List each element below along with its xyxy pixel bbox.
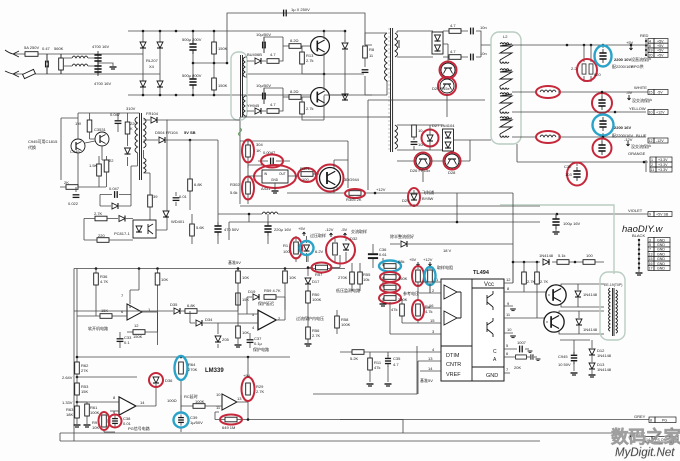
wire +3.3V rail (517, 144, 648, 162)
ellipse red 304 (242, 140, 254, 163)
svg-text:R302: R302 (230, 182, 240, 187)
svg-text:C945: C945 (70, 149, 80, 154)
svg-text:100: 100 (586, 253, 593, 258)
resistor 649 1M circled (215, 419, 248, 421)
svg-text:C945: C945 (558, 354, 568, 359)
svg-text:2.7K: 2.7K (256, 389, 265, 394)
svg-text:L2: L2 (503, 34, 508, 39)
svg-text:10n: 10n (480, 25, 487, 30)
svg-text:10: 10 (507, 327, 512, 332)
wire rect out 12V (454, 140, 492, 161)
ground ladder (380, 304, 387, 306)
svg-text:3: 3 (649, 238, 651, 242)
inductor 5VSB coil (262, 212, 278, 214)
ground BLACK (638, 268, 640, 272)
resistor R64 270K circled cyan (180, 357, 182, 410)
resistor 270K lv (352, 263, 360, 291)
drive transformer T4 (600, 272, 625, 340)
svg-text:D26 FR15x: D26 FR15x (410, 168, 430, 173)
svg-text:+3.3V: +3.3V (658, 168, 668, 172)
svg-text:R8: R8 (369, 47, 375, 52)
optocoupler PC817 (133, 220, 156, 238)
svg-text:103: 103 (565, 172, 572, 177)
T3 primary (135, 117, 138, 153)
svg-text:9: 9 (649, 213, 651, 217)
SCR D25 circled (441, 63, 455, 77)
transistor C3531 (95, 132, 109, 146)
svg-text:数码之家: 数码之家 (611, 427, 680, 447)
capacitor 10n sec1 (471, 28, 474, 35)
capacitor C39 circled cyan (180, 406, 182, 432)
diode FR104 (144, 119, 241, 121)
T1 core (391, 28, 393, 152)
transistor drive Q4 (544, 312, 564, 332)
svg-text:4.7: 4.7 (270, 52, 276, 57)
IC TL494 box (441, 279, 504, 381)
node dots mid buses (248, 192, 559, 224)
sample network D32 circled (335, 236, 346, 263)
diode D26 circled (416, 154, 430, 168)
capacitor 220u 16V (264, 222, 271, 236)
svg-text:10k: 10k (363, 277, 369, 282)
L2 winding 3 (500, 93, 512, 114)
wire HV+ ext (324, 31, 345, 95)
T3 secondary (144, 118, 147, 148)
capacitor 0.047 sb (115, 121, 122, 124)
svg-text:PC817-1: PC817-1 (114, 231, 131, 236)
wire half-bridge mid (246, 73, 364, 75)
capacitor 0.01 wd (173, 198, 180, 201)
rectifier box 5V (432, 32, 443, 54)
T1 secondary top (395, 33, 398, 57)
svg-text:10K: 10K (161, 277, 168, 282)
svg-text:+12V: +12V (423, 257, 433, 262)
ellipse red A431 (254, 165, 296, 188)
wire lower bus (229, 222, 540, 240)
svg-text:+5V: +5V (298, 226, 306, 231)
svg-text:-5V: -5V (341, 227, 348, 232)
capacitor pin5 (520, 346, 523, 353)
svg-text:2.7K: 2.7K (312, 333, 321, 338)
capacitor C36 (368, 254, 378, 258)
svg-text:GND: GND (657, 262, 665, 266)
resistor R100 circled (295, 236, 297, 262)
svg-text:D19: D19 (248, 289, 256, 294)
SCR fb (112, 203, 118, 209)
capacitor R8 snub (362, 70, 369, 73)
wire teal link (500, 205, 614, 274)
wire T2 to snubbers (245, 57, 247, 116)
svg-text:GND: GND (657, 238, 665, 242)
diode D504 (144, 139, 219, 141)
svg-text:15K: 15K (101, 308, 108, 313)
resistor R56 2.7K (306, 327, 311, 339)
zener Z05 (217, 323, 219, 348)
snubber cap 10u/50V Q2 (263, 88, 266, 104)
svg-text:GND: GND (657, 267, 665, 271)
svg-text:2.7k: 2.7k (306, 106, 314, 111)
svg-text:RL207: RL207 (146, 58, 159, 63)
transistor Q1 (311, 37, 330, 56)
resistor 5.1k drv (557, 260, 569, 265)
svg-text:17: 17 (649, 267, 653, 271)
svg-text:6.2V: 6.2V (315, 249, 324, 254)
zener 6.2V circled cyan (306, 236, 308, 262)
resistor R29 2.7K circled (236, 357, 248, 420)
resistor 6.8K ps (185, 309, 197, 314)
fuse F1 5A 250V (25, 52, 38, 57)
svg-text:YH945: YH945 (247, 103, 260, 108)
wire standby top rail (61, 113, 140, 180)
resistor R5x circled (308, 255, 340, 268)
capacitor 100u 16V (555, 214, 557, 231)
resistor ladder r1 cyan (383, 258, 396, 302)
svg-text:2200 16V: 2200 16V (614, 125, 631, 130)
svg-text:FR104: FR104 (146, 111, 159, 116)
svg-text:1K: 1K (256, 148, 261, 153)
svg-text:0.01: 0.01 (179, 194, 188, 199)
svg-text:8: 8 (650, 419, 652, 423)
svg-text:+5V: +5V (657, 39, 664, 43)
svg-text:500μ 200V: 500μ 200V (182, 37, 202, 42)
T3 aux (144, 158, 147, 173)
svg-text:EE-19(T0P): EE-19(T0P) (604, 283, 622, 287)
T3 aux return (131, 150, 150, 192)
resistor R59 4.7K (264, 295, 276, 300)
resistor R61 100K (77, 402, 87, 424)
svg-text:过压取样: 过压取样 (310, 232, 326, 238)
svg-text:150K: 150K (218, 46, 228, 51)
resistor 150K (127, 312, 158, 332)
TL494 pins left (390, 282, 441, 371)
wire AC line L (13, 53, 143, 55)
svg-text:4.7K: 4.7K (100, 279, 109, 284)
svg-text:5.6k: 5.6k (230, 190, 238, 195)
resistor R302 circled (247, 183, 249, 204)
svg-text:3DG944: 3DG944 (344, 177, 360, 182)
resistor 39 (148, 195, 153, 207)
svg-text:GND: GND (657, 243, 665, 247)
svg-text:VIOLET: VIOLET (628, 208, 643, 213)
svg-text:4.7: 4.7 (450, 23, 456, 28)
svg-text:PG: PG (662, 419, 667, 423)
wire +12V rail (512, 111, 646, 113)
resistor 220 start (97, 238, 109, 243)
svg-text:没交流保护: 没交流保护 (632, 97, 652, 103)
svg-text:500μ 200V: 500μ 200V (182, 73, 202, 78)
AC plug arrows (5, 50, 19, 77)
svg-text:0.47: 0.47 (42, 46, 51, 51)
T1 secondary bottom (395, 125, 398, 149)
svg-text:R57: R57 (315, 272, 323, 277)
TL494 pins right (504, 283, 548, 373)
svg-text:X4: X4 (149, 64, 155, 69)
resistor 15K (77, 315, 127, 317)
resistor 2.7k Q2 (300, 102, 305, 114)
svg-text:+3.3V: +3.3V (658, 158, 668, 162)
svg-text:4700 16V: 4700 16V (92, 44, 109, 49)
wire HV+ bus (128, 30, 324, 32)
svg-text:10μ/50V: 10μ/50V (256, 32, 271, 37)
capacitor 0.022 (73, 195, 80, 198)
resistor R53 15K (76, 374, 78, 383)
svg-text:+12V: +12V (656, 111, 665, 115)
svg-text:68k: 68k (398, 259, 404, 264)
coil -5V circled (540, 90, 556, 92)
svg-text:飞利浦: 飞利浦 (422, 189, 434, 195)
svg-text:GND: GND (657, 252, 665, 256)
svg-text:C945可用C1815: C945可用C1815 (28, 139, 58, 144)
svg-text:BY8W: BY8W (422, 196, 434, 201)
resistor 4.7 sec2 (443, 56, 468, 58)
svg-text:K: K (130, 126, 133, 131)
transistor 3.3V reg (320, 168, 341, 189)
svg-text:100K: 100K (312, 297, 322, 302)
wire top snubber 1u line (227, 13, 365, 63)
svg-text:10: 10 (216, 392, 221, 397)
svg-text:D17: D17 (312, 279, 320, 284)
resistor 10 (412, 125, 417, 137)
secondary enclosure upper edge (368, 100, 485, 190)
svg-text:2: 2 (651, 163, 653, 167)
resistor 100K rc (181, 395, 222, 406)
svg-text:GND: GND (657, 248, 665, 252)
svg-text:Z05: Z05 (222, 337, 230, 342)
svg-text:100K: 100K (90, 410, 100, 415)
svg-text:0.047: 0.047 (110, 112, 121, 117)
svg-text:0.022: 0.022 (68, 201, 79, 206)
resistor 4.7 Q1 (267, 59, 279, 64)
wire sec top (397, 31, 433, 57)
resistor R50 100K (307, 285, 309, 327)
resistor 220K sb (125, 122, 130, 134)
diode D13 (591, 356, 593, 362)
svg-text:39: 39 (153, 194, 158, 199)
wire 5VSB bus to VIOLET (218, 117, 648, 222)
svg-text:100Ω: 100Ω (167, 398, 177, 403)
svg-text:基准5V: 基准5V (420, 377, 433, 383)
svg-text:1: 1 (651, 158, 653, 162)
svg-text:100: 100 (302, 177, 309, 182)
resistor ladder r2 circled (384, 275, 396, 280)
resistor 4.7 Q2 (267, 109, 279, 114)
svg-text:5A 250V: 5A 250V (24, 45, 39, 50)
capacitor C5 500u200V (192, 31, 194, 95)
svg-text:4.7: 4.7 (450, 49, 456, 54)
resistor ladder r3 circled (384, 285, 396, 290)
svg-text:+9V: +9V (243, 373, 251, 378)
capacitor 4700 16V top (94, 51, 101, 65)
resistor R13 2.7k (300, 52, 305, 64)
svg-text:8.2Ω: 8.2Ω (290, 89, 299, 94)
svg-text:Vcc: Vcc (484, 282, 494, 288)
capacitor 0.0047 circled (271, 158, 274, 165)
resistor 15K m2 (236, 293, 241, 305)
svg-text:15: 15 (649, 91, 653, 95)
svg-text:20: 20 (649, 53, 653, 57)
svg-text:4.7k: 4.7k (425, 309, 433, 314)
svg-text:D35: D35 (170, 302, 178, 307)
svg-text:TL494: TL494 (473, 270, 490, 276)
svg-text:560K: 560K (54, 46, 64, 51)
svg-text:R59 4.7K: R59 4.7K (264, 288, 281, 293)
svg-text:2.64V: 2.64V (62, 375, 73, 380)
transistor Q2 (311, 88, 330, 107)
svg-text:1N4148: 1N4148 (583, 327, 598, 332)
resistor 1W (87, 120, 92, 132)
svg-text:R1: R1 (283, 243, 289, 248)
resistor R63 18K (76, 395, 78, 424)
resistor 2.7K d1 (523, 262, 525, 292)
svg-text:CNTR: CNTR (446, 362, 461, 368)
svg-text:19: 19 (649, 49, 653, 53)
svg-text:5V SB: 5V SB (184, 130, 196, 135)
svg-text:4700 16V: 4700 16V (94, 81, 111, 86)
svg-text:10 50V: 10 50V (558, 362, 571, 367)
TL494 out transistor 1 (487, 291, 493, 310)
L2 winding 1 (500, 43, 512, 64)
diode YH945 Q2 (247, 110, 266, 112)
svg-text:LM339: LM339 (205, 368, 224, 374)
capacitor 1u X 250V (284, 10, 287, 17)
svg-text:4: 4 (649, 39, 651, 43)
wire sec mid (397, 125, 443, 150)
standby transformer T3 core (140, 113, 142, 180)
svg-text:+5V: +5V (626, 40, 634, 45)
svg-text:VREF: VREF (446, 372, 461, 378)
svg-text:20K: 20K (514, 365, 521, 370)
svg-text:交流取样: 交流取样 (351, 228, 367, 234)
svg-text:过流保护内电压: 过流保护内电压 (296, 315, 324, 321)
svg-text:6.8K: 6.8K (194, 182, 203, 187)
net -12V arrow (627, 141, 630, 146)
svg-text:0.047: 0.047 (109, 186, 120, 191)
svg-text:12: 12 (134, 323, 139, 328)
svg-text:22: 22 (109, 158, 114, 163)
svg-text:2.7k: 2.7k (306, 58, 314, 63)
svg-text:310V: 310V (126, 106, 136, 111)
svg-text:D32: D32 (350, 236, 358, 241)
varistor (23, 69, 36, 78)
resistor 150K top (193, 31, 227, 95)
svg-text:低压监测电路: 低压监测电路 (336, 287, 360, 293)
svg-text:18 V: 18 V (443, 248, 452, 253)
svg-text:15: 15 (649, 257, 653, 261)
resistor 10K m1 (237, 269, 239, 294)
svg-text:WD401: WD401 (171, 219, 185, 224)
svg-text:13: 13 (237, 396, 242, 401)
ground A431 (274, 183, 276, 190)
wire HV- bus (128, 94, 364, 96)
TL494 comparator 1 (444, 285, 457, 299)
net -5V arrow (628, 95, 631, 100)
T2 winding top (243, 57, 245, 77)
capacitor C6 500u200V (189, 75, 196, 89)
resistor 10K m4 (284, 269, 286, 311)
svg-text:MyDigit.Net: MyDigit.Net (615, 447, 675, 459)
ground EMI (98, 63, 113, 66)
wire T1 primary conns (365, 33, 387, 95)
node dots HV (142, 30, 229, 97)
wire secondary gnd bus (240, 205, 540, 207)
diode D17 (307, 268, 309, 277)
svg-text:GND: GND (486, 373, 498, 379)
snubber cap 10u/50V Q1 (263, 37, 266, 53)
T4 winding right (616, 290, 618, 333)
bridge RL207 X4 (143, 31, 160, 95)
svg-text:保护延迟: 保护延迟 (258, 300, 274, 306)
svg-text:16: 16 (429, 303, 434, 308)
svg-text:+5V: +5V (657, 44, 664, 48)
wire drive row (513, 262, 604, 283)
green squiggle (239, 128, 242, 136)
resistor 150K bottom (212, 78, 217, 90)
ellipse red 0.0047 (261, 155, 283, 168)
ground R63 (74, 425, 81, 427)
L2 winding 2 (500, 69, 512, 90)
opamp LM339d (222, 394, 237, 410)
svg-text:1N4148: 1N4148 (597, 353, 612, 358)
svg-text:2.7K: 2.7K (540, 279, 549, 284)
svg-text:-12V: -12V (656, 139, 664, 143)
svg-text:15: 15 (430, 318, 435, 323)
svg-text:2200 10V: 2200 10V (614, 57, 631, 62)
svg-text:15K: 15K (81, 389, 88, 394)
diode D35 (74, 310, 185, 312)
svg-text:12: 12 (649, 139, 653, 143)
svg-text:150K: 150K (133, 334, 143, 339)
svg-text:11: 11 (651, 168, 655, 172)
svg-text:5.1k: 5.1k (558, 253, 566, 258)
capacitor 2200 16V circled cyan (602, 133, 604, 137)
resistor 4.7k fb circled (417, 299, 419, 323)
resistor ladder r4 circled (384, 296, 396, 301)
svg-text:4.7: 4.7 (270, 102, 276, 107)
svg-text:6.8K: 6.8K (187, 303, 196, 308)
capacitor -12V circled (601, 137, 603, 141)
SCR D20 circled (440, 79, 454, 93)
svg-text:2.7K: 2.7K (94, 211, 103, 216)
svg-text:D27 1N4104: D27 1N4104 (432, 123, 455, 128)
T2 core (241, 55, 243, 117)
svg-text:RED: RED (640, 33, 649, 38)
svg-text:47k: 47k (374, 365, 380, 370)
diode D snub2 (342, 94, 348, 100)
wire PG GREY line (248, 419, 649, 421)
main transformer T1 primary (385, 33, 388, 82)
T1 core dash (388, 28, 390, 152)
svg-text:5.2K: 5.2K (350, 356, 359, 361)
svg-text:47k: 47k (391, 307, 397, 312)
svg-text:软开机电路: 软开机电路 (88, 325, 108, 331)
svg-text:12: 12 (506, 277, 511, 282)
svg-text:ORANGE: ORANGE (628, 151, 646, 156)
svg-text:220μ 16V: 220μ 16V (274, 227, 292, 232)
svg-text:304: 304 (256, 142, 263, 147)
control board box (74, 269, 345, 442)
capacitor 0.047 fb (115, 191, 118, 198)
svg-text:保护电路: 保护电路 (253, 346, 269, 352)
ground R61 (84, 425, 91, 427)
svg-text:GND: GND (657, 257, 665, 261)
capacitor C35 4.7 (385, 355, 391, 367)
diode 1N4148 q3 (577, 284, 579, 307)
svg-text:15K: 15K (242, 297, 249, 302)
resistor 8.2 Q1 (289, 44, 301, 49)
resistor sample 5V circled (417, 266, 419, 293)
svg-text:+5V: +5V (409, 257, 417, 262)
resistor R8 11 (363, 46, 368, 58)
